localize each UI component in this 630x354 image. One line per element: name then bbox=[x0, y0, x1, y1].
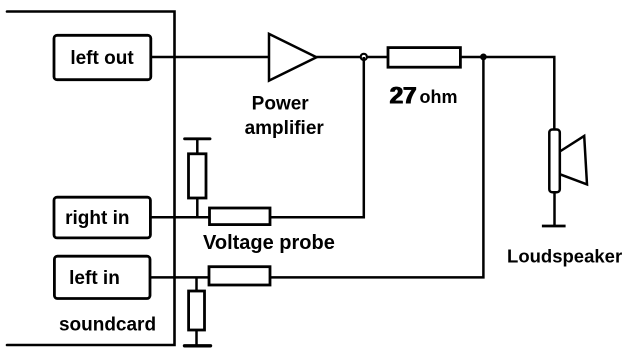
wire amplifier output bbox=[317, 56, 362, 59]
ground loudspeaker bbox=[542, 225, 566, 228]
ground bar bbox=[185, 344, 211, 347]
wire resistor to loudspeaker with corner bbox=[460, 57, 554, 130]
wire node down to right-in probe line bbox=[270, 57, 364, 217]
resistor divider lower bbox=[189, 291, 205, 330]
terminal box left in bbox=[54, 256, 150, 298]
svg-text:Voltage probe: Voltage probe bbox=[203, 232, 335, 254]
svg-text:left out: left out bbox=[70, 48, 134, 69]
svg-text:left in: left in bbox=[69, 268, 120, 289]
wire loudspeaker to ground bbox=[553, 192, 556, 225]
soundcard enclosure outline bbox=[7, 12, 175, 346]
resistor divider upper bbox=[189, 154, 207, 198]
terminal box right in bbox=[54, 197, 150, 238]
wire left in to probe resistor bbox=[150, 276, 210, 279]
wire terminal to divider resistor bbox=[196, 140, 199, 154]
wire divider resistor to right-in line bbox=[196, 198, 199, 218]
svg-text:Power: Power bbox=[252, 93, 310, 114]
resistor voltage probe lower bbox=[209, 267, 270, 285]
loudspeaker body bbox=[549, 130, 560, 193]
resistor voltage probe upper bbox=[210, 208, 271, 225]
svg-text:Loudspeaker: Loudspeaker bbox=[507, 246, 622, 267]
terminal box left out bbox=[54, 35, 151, 79]
wire divider lower to ground bbox=[195, 330, 198, 345]
svg-text:soundcard: soundcard bbox=[59, 315, 156, 336]
svg-text:27: 27 bbox=[390, 83, 417, 110]
junction dot bbox=[480, 54, 487, 61]
svg-text:right in: right in bbox=[65, 208, 129, 229]
wire right in to probe resistor bbox=[150, 216, 210, 219]
probe terminal bar bbox=[185, 137, 210, 140]
wire junction down to left-in probe line bbox=[270, 57, 483, 277]
svg-text:amplifier: amplifier bbox=[245, 118, 325, 139]
op-amp power amplifier bbox=[269, 34, 317, 81]
loudspeaker horn bbox=[560, 136, 587, 185]
node open circle at amplifier output bbox=[361, 54, 367, 60]
resistor 27 ohm bbox=[388, 48, 460, 68]
wire left out to amplifier input bbox=[151, 56, 269, 59]
svg-text:ohm: ohm bbox=[420, 87, 458, 107]
wire left-in line to divider resistor lower bbox=[195, 277, 198, 291]
wire node to resistor bbox=[367, 56, 388, 59]
